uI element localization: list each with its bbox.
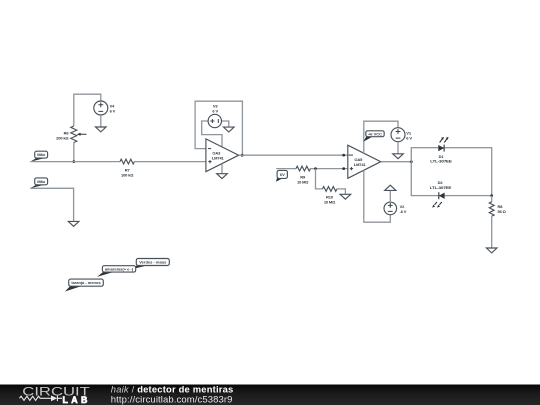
logo resistor-diode: [19, 396, 62, 402]
node 6V: [276, 170, 288, 181]
svg-text:56 Ω: 56 Ω: [498, 209, 507, 214]
svg-text:LTL-307EE: LTL-307EE: [430, 159, 452, 164]
ground (V3): [224, 127, 235, 132]
wire OA3 feedback loop: [195, 101, 242, 155]
svg-text:+6 VCC: +6 VCC: [368, 131, 382, 136]
wire R9 to OA5 in+: [310, 168, 347, 170]
ground (Mao2): [68, 221, 79, 226]
svg-text:10 MΩ: 10 MΩ: [297, 179, 309, 184]
diode D2: [432, 192, 444, 207]
svg-text:10 MΩ: 10 MΩ: [324, 199, 336, 204]
svg-text:6 V: 6 V: [406, 135, 412, 140]
resistor R7: [120, 159, 134, 164]
node Verdes - maos: [131, 259, 169, 270]
wire V4 top loop: [74, 94, 101, 126]
wire V3 right to ground: [222, 121, 229, 127]
junction OA5 in+: [342, 167, 345, 170]
wire OA5 V- pin to V2: [364, 170, 391, 222]
voltage source V3: [208, 114, 221, 127]
svg-text:LAB: LAB: [63, 395, 91, 405]
node +6 VCC: [363, 131, 384, 142]
ground (R8): [486, 248, 497, 253]
svg-text:LM741: LM741: [212, 156, 225, 161]
voltage source V4: [94, 101, 108, 115]
svg-text:100 kΩ: 100 kΩ: [121, 172, 134, 177]
svg-text:Mão: Mão: [37, 152, 46, 157]
svg-text:-6 V: -6 V: [400, 209, 407, 214]
wire junction down to R10: [316, 169, 323, 189]
svg-text:laranja - menos: laranja - menos: [71, 280, 101, 285]
wire R6 to bus: [73, 143, 75, 162]
junction bus/R6: [72, 160, 75, 163]
resistor R8: [489, 202, 494, 216]
node Mao 1: [30, 151, 47, 162]
wire OA5 V+ pin to rail and V1: [364, 121, 398, 153]
op-amp OA5: [348, 145, 381, 178]
ground (OA3): [217, 174, 228, 179]
node amarelos: [97, 266, 136, 277]
wire R8 top stub: [491, 196, 493, 202]
wire 6V to R9: [276, 168, 296, 170]
wire OA5 out to LED network: [381, 161, 412, 163]
svg-text:LM741: LM741: [354, 162, 367, 167]
junction R9/R10: [314, 167, 317, 170]
wire OA3 V- pin: [221, 164, 223, 174]
wire V3 left / op-amp V+ pin: [202, 121, 222, 147]
node Mao 2: [30, 178, 47, 188]
resistor R9: [296, 166, 310, 171]
diode D1: [438, 137, 448, 152]
voltage source V1: [391, 128, 405, 142]
op-amp OA3: [206, 139, 239, 172]
svg-text:200 kΩ: 200 kΩ: [56, 135, 69, 140]
wire OA3 out to OA5 in-: [239, 154, 348, 156]
svg-text:amarelos(+ e -): amarelos(+ e -): [105, 267, 134, 272]
junction OA5 in-: [342, 154, 345, 157]
wire R8 to ground: [491, 216, 493, 247]
wire bus right: [134, 161, 206, 163]
junction LED network input: [410, 160, 413, 163]
resistor R10: [323, 187, 337, 192]
node laranja - menos: [65, 279, 103, 291]
junction OA3 output: [241, 154, 244, 157]
wire Mao2 to ground: [30, 188, 73, 221]
wire V1 to ground: [397, 142, 399, 154]
ground (V1): [393, 154, 404, 159]
ground (V4): [96, 127, 107, 132]
svg-text:http://circuitlab.com/c5383r9: http://circuitlab.com/c5383r9: [111, 394, 233, 405]
ground (R10): [340, 194, 351, 199]
junction R8 top: [490, 194, 493, 197]
power flag above V2: [385, 185, 396, 190]
potentiometer R6: [71, 126, 87, 143]
wire V4 bottom: [100, 115, 102, 127]
svg-text:6 V: 6 V: [212, 108, 218, 113]
svg-text:6 V: 6 V: [110, 109, 116, 114]
svg-text:Mão: Mão: [37, 179, 46, 184]
wire LED loop rectangle: [411, 148, 491, 196]
wire R10 to ground: [337, 189, 346, 194]
svg-text:LTL-307EE: LTL-307EE: [430, 185, 452, 190]
svg-text:6V: 6V: [280, 172, 285, 177]
svg-text:haik / detector de mentiras: haik / detector de mentiras: [111, 383, 234, 394]
wire V2 plus up: [389, 190, 391, 202]
wire bus left: [30, 161, 120, 163]
voltage source V2: [384, 202, 397, 215]
svg-text:Verdes - maos: Verdes - maos: [139, 260, 167, 265]
